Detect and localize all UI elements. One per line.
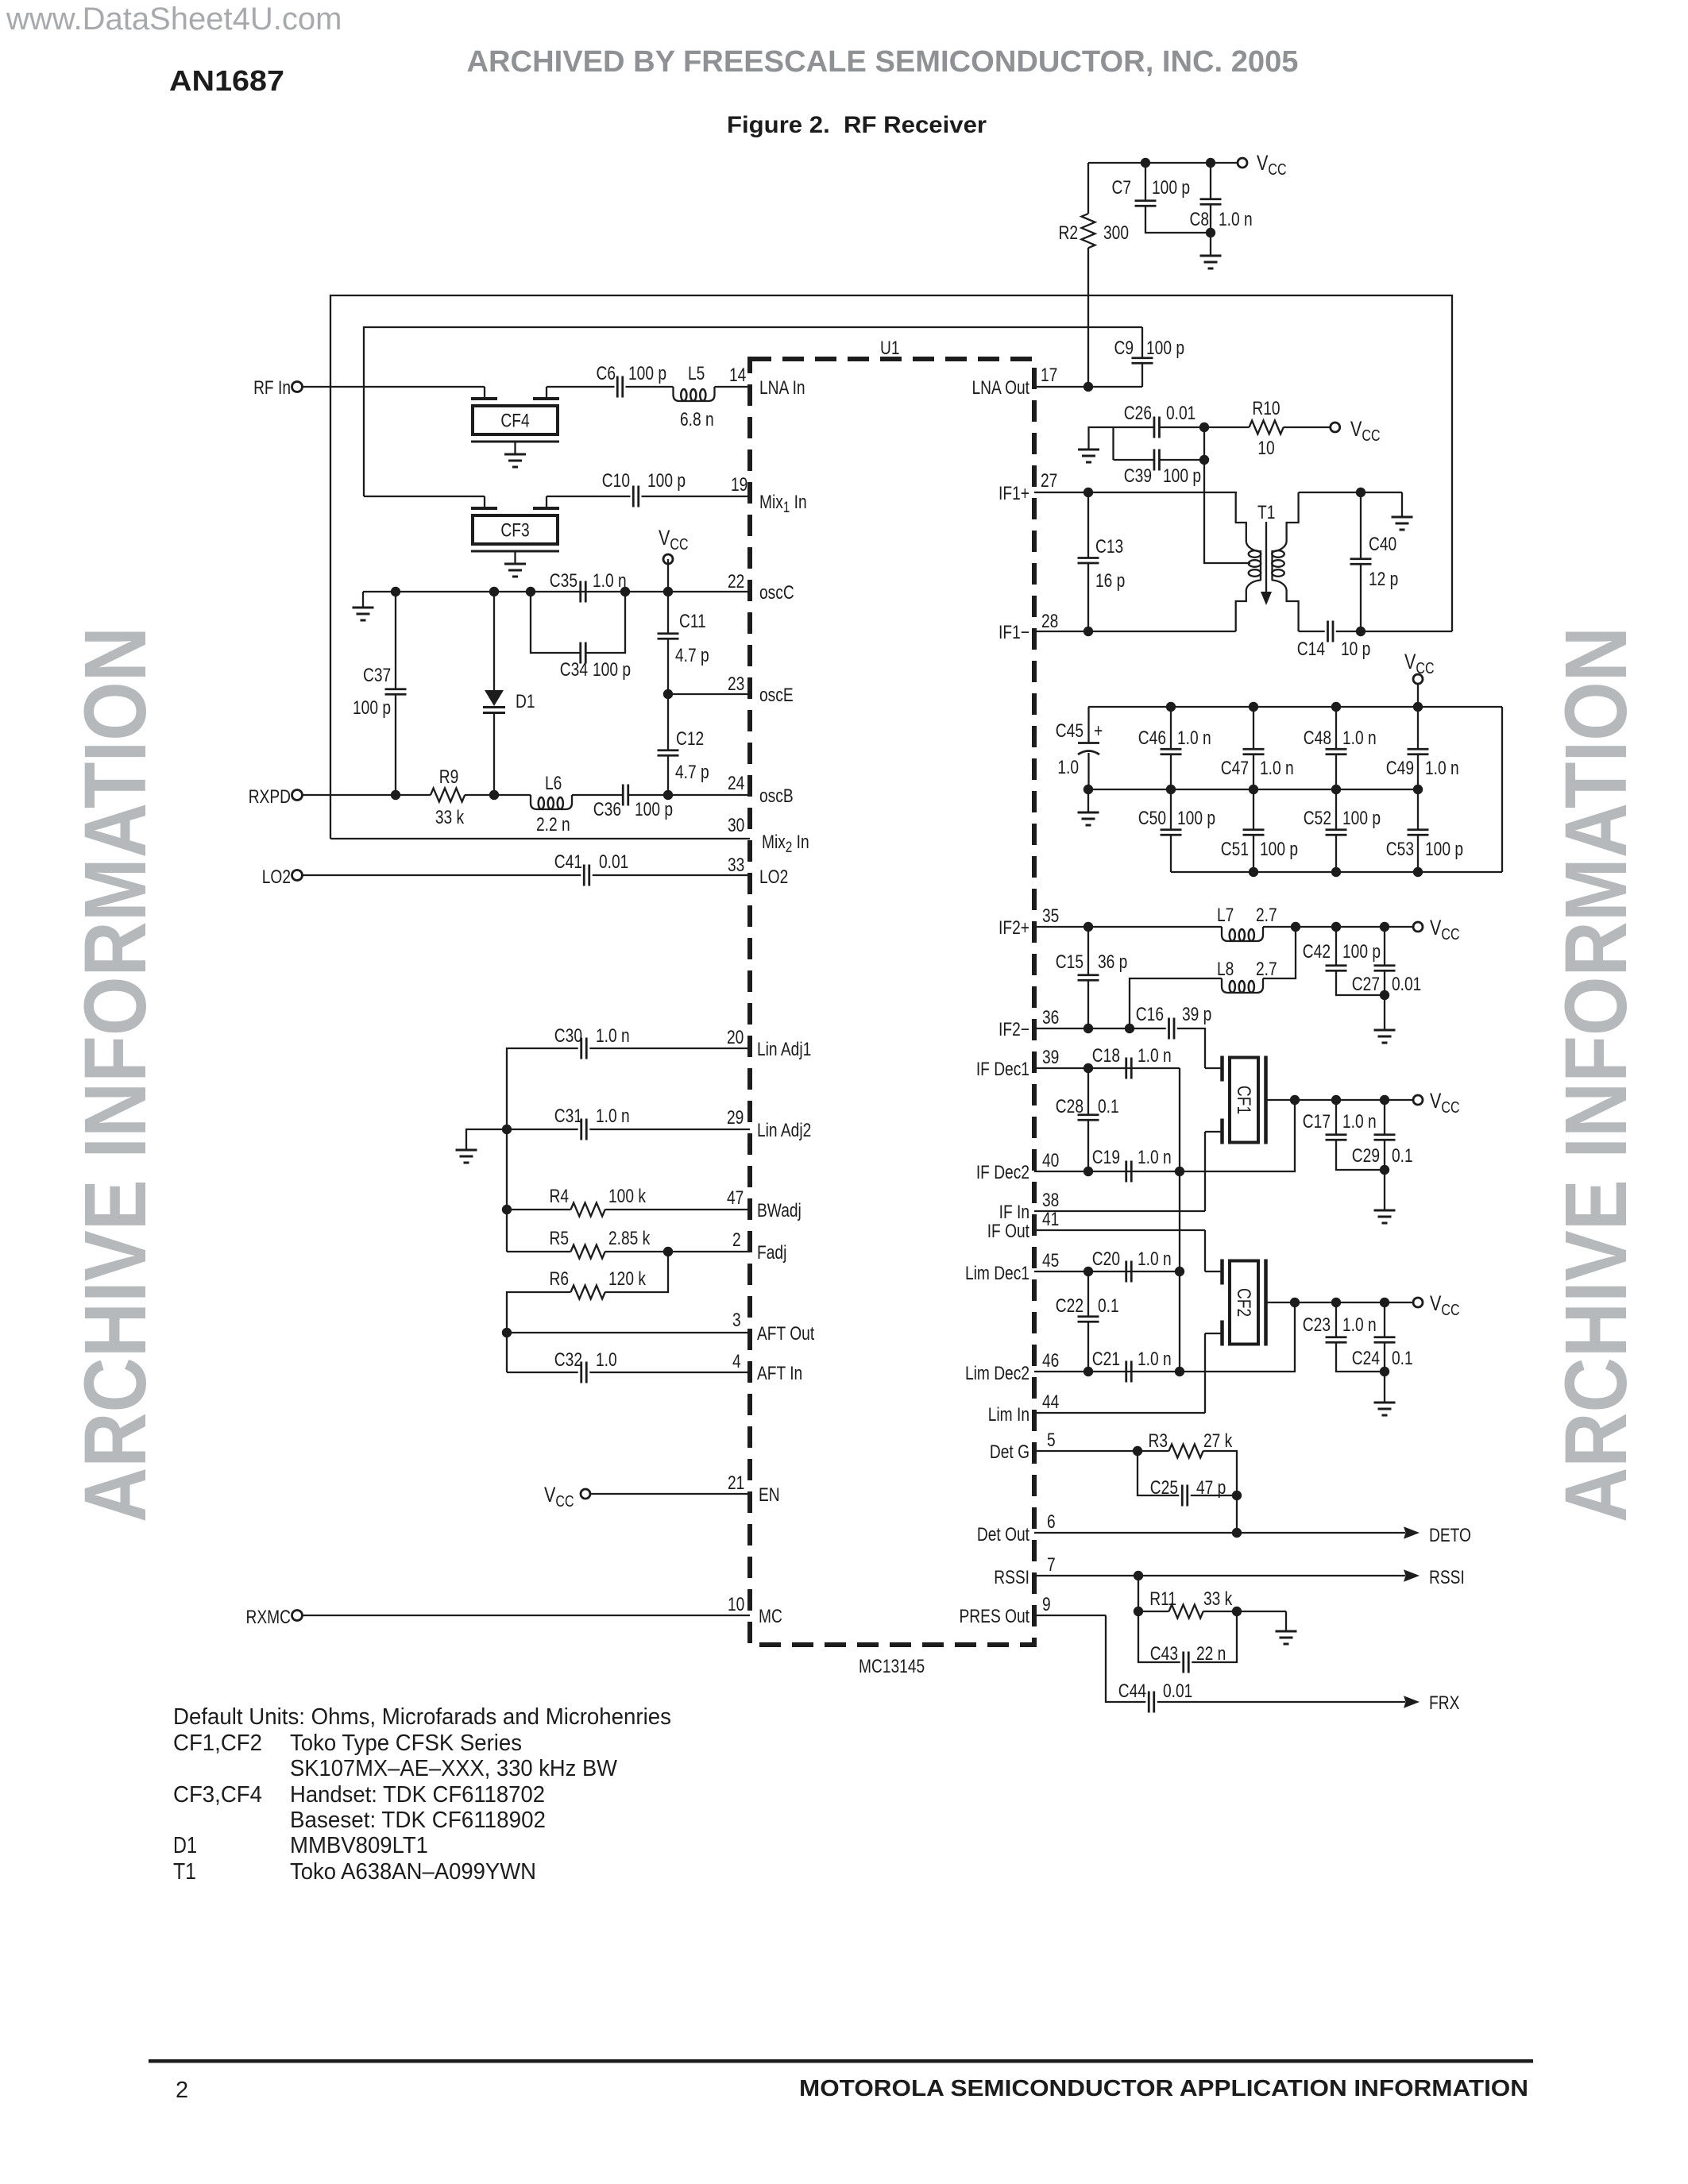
wire C34 loop right — [585, 592, 625, 653]
capacitor C18 1.0n — [1092, 1044, 1172, 1079]
svg-text:R9: R9 — [439, 766, 459, 788]
svg-text:AN1687: AN1687 — [169, 64, 284, 97]
svg-text:0.1: 0.1 — [1392, 1144, 1413, 1167]
svg-text:C11: C11 — [679, 610, 706, 632]
svg-text:C47: C47 — [1221, 757, 1249, 779]
wire bank top rail — [1088, 706, 1502, 708]
wire C39 right lead — [1159, 459, 1204, 461]
power VCC CF1 — [1413, 1090, 1460, 1117]
capacitor C22 0.1 — [1056, 1295, 1119, 1322]
svg-text:C26: C26 — [1124, 402, 1152, 424]
svg-text:1.0 n: 1.0 n — [596, 1024, 630, 1047]
capacitor C25 47p — [1150, 1476, 1226, 1507]
wire C7 bottom lead — [1145, 206, 1211, 233]
capacitor C43 22n — [1150, 1642, 1226, 1673]
resistor R6 120k — [549, 1268, 646, 1299]
wire RSSI pin7 — [1034, 1575, 1405, 1576]
capacitor C45 1.0 electrolytic — [1056, 707, 1103, 789]
wire IF1- pin28 — [1034, 631, 1236, 632]
junction R9 right — [489, 790, 499, 800]
junction C53 top — [1413, 785, 1423, 794]
capacitor C6 100p — [596, 362, 666, 398]
svg-text:9: 9 — [1042, 1593, 1051, 1615]
svg-text:100 p: 100 p — [1425, 838, 1463, 860]
svg-text:SK107MX–AE–XXX, 330 kHz BW: SK107MX–AE–XXX, 330 kHz BW — [290, 1756, 618, 1781]
svg-text:5: 5 — [1047, 1429, 1056, 1451]
pin 29 Lin Adj2 — [727, 1106, 811, 1141]
svg-text:ARCHIVED BY FREESCALE SEMICOND: ARCHIVED BY FREESCALE SEMICONDUCTOR, INC… — [467, 45, 1299, 79]
wire pin17 LNA Out — [1034, 386, 1142, 388]
svg-text:Toko Type CFSK Series: Toko Type CFSK Series — [290, 1731, 522, 1756]
svg-text:100 p: 100 p — [1260, 838, 1298, 860]
pin 46 Lim Dec2 — [965, 1349, 1059, 1384]
svg-text:Lin Adj2: Lin Adj2 — [757, 1119, 811, 1141]
svg-text:C31: C31 — [554, 1105, 582, 1127]
svg-text:0.01: 0.01 — [1163, 1680, 1192, 1702]
svg-text:IF2−: IF2− — [999, 1018, 1029, 1040]
svg-text:C36: C36 — [593, 798, 621, 820]
svg-text:10: 10 — [1257, 437, 1274, 459]
svg-text:L8: L8 — [1217, 958, 1234, 980]
svg-text:300: 300 — [1103, 222, 1129, 244]
junction Det Out — [1232, 1528, 1242, 1538]
pin 33 LO2 — [728, 854, 788, 888]
svg-text:0.1: 0.1 — [1098, 1095, 1119, 1117]
svg-text:C22: C22 — [1056, 1295, 1083, 1317]
svg-text:1.0 n: 1.0 n — [593, 569, 627, 592]
wire IF Dec2 pin40 — [1034, 1171, 1180, 1172]
wire C47 bottom lead — [1253, 754, 1254, 789]
svg-text:1.0 n: 1.0 n — [1342, 727, 1377, 749]
svg-text:www.DataSheet4U.com: www.DataSheet4U.com — [6, 2, 342, 37]
capacitor C53 100p — [1386, 830, 1463, 860]
svg-text:C6: C6 — [596, 362, 616, 384]
resistor R10 10 — [1250, 397, 1284, 459]
svg-text:C19: C19 — [1092, 1146, 1120, 1168]
svg-text:T1: T1 — [1257, 501, 1275, 523]
wire T1 secondary bottom lead — [1287, 590, 1299, 631]
svg-text:C23: C23 — [1303, 1314, 1331, 1336]
pin 35 IF2+ — [999, 905, 1059, 939]
wire IF Out pin41 — [1034, 1229, 1205, 1231]
svg-text:44: 44 — [1042, 1391, 1059, 1413]
terminal RXPD — [249, 785, 303, 808]
wire T1 primary top lead — [1236, 492, 1246, 542]
svg-text:100 p: 100 p — [628, 362, 666, 384]
junction C17 top — [1331, 1095, 1341, 1105]
capacitor C15 36p — [1056, 951, 1128, 980]
pin 39 IF Dec1 — [976, 1046, 1060, 1080]
svg-text:2.7: 2.7 — [1256, 958, 1277, 980]
wire Lim Dec2 pin46 — [1034, 1371, 1180, 1372]
wire LO2 to C41 — [303, 874, 581, 876]
capacitor C27 0.01 — [1352, 966, 1422, 995]
svg-text:DETO: DETO — [1429, 1524, 1471, 1546]
wire C37 bottom lead — [395, 694, 396, 795]
capacitor C19 1.0n — [1092, 1146, 1172, 1183]
pin 3 AFT Out — [732, 1309, 814, 1345]
wire C24 bottom lead — [1384, 1342, 1385, 1403]
side text ARCHIVE INFORMATION left — [67, 627, 164, 1522]
svg-text:1.0 n: 1.0 n — [1177, 727, 1211, 749]
wire CF2 out to VCC — [1295, 1302, 1413, 1303]
wire bank VCC lead — [1417, 684, 1419, 707]
wire R10 to VCC — [1284, 426, 1331, 428]
capacitor C44 0.01 — [1118, 1680, 1193, 1713]
svg-text:R5: R5 — [549, 1227, 569, 1249]
ground C27 — [1374, 1030, 1396, 1043]
wire C52 bottom lead — [1335, 835, 1337, 872]
svg-text:Lin Adj1: Lin Adj1 — [757, 1038, 811, 1060]
svg-text:C28: C28 — [1056, 1095, 1083, 1117]
wire C34 loop — [531, 592, 581, 653]
svg-text:IF2+: IF2+ — [999, 916, 1029, 939]
wire R4 left — [507, 1209, 571, 1210]
transformer T1 secondary top arc — [1273, 542, 1287, 552]
junction CF2 out — [1290, 1298, 1300, 1307]
svg-text:C27: C27 — [1352, 973, 1380, 995]
svg-text:33: 33 — [728, 854, 744, 876]
svg-text:C32: C32 — [554, 1349, 582, 1371]
junction C52 bottom — [1331, 867, 1341, 877]
svg-text:IF Out: IF Out — [987, 1220, 1029, 1242]
svg-text:6: 6 — [1047, 1511, 1056, 1533]
svg-text:L5: L5 — [688, 362, 705, 384]
junction C15 top — [1083, 922, 1093, 932]
junction C24 C23 — [1380, 1367, 1389, 1376]
junction L8 top — [1291, 922, 1300, 932]
wire C32 left — [507, 1372, 578, 1373]
wire oscC rail — [363, 591, 750, 592]
svg-text:1.0 n: 1.0 n — [1342, 1314, 1377, 1336]
junction L8 tee — [1125, 1024, 1134, 1033]
svg-text:47: 47 — [727, 1187, 744, 1209]
wire C26 loop left — [1112, 427, 1114, 460]
capacitor C16 39p — [1136, 1003, 1212, 1040]
junction C13 top — [1083, 488, 1093, 497]
transformer T1 primary bottom arc — [1246, 581, 1261, 591]
wire Lim Dec1 pin45 — [1034, 1271, 1180, 1272]
junction C7 top — [1141, 158, 1150, 168]
capacitor C31 1.0n — [554, 1105, 630, 1140]
svg-text:D1: D1 — [173, 1833, 197, 1858]
inductor L5 6.8n — [674, 362, 715, 430]
junction R3 left — [1133, 1446, 1142, 1456]
svg-text:oscC: oscC — [759, 581, 794, 604]
filter CF1 — [1205, 1056, 1295, 1144]
wire gnd branch — [466, 1129, 507, 1150]
junction C23 top — [1331, 1298, 1341, 1307]
svg-text:16 p: 16 p — [1095, 569, 1125, 592]
svg-text:R4: R4 — [549, 1185, 569, 1207]
svg-text:22 n: 22 n — [1196, 1642, 1226, 1665]
svg-text:C10: C10 — [602, 469, 630, 492]
svg-text:IF Dec1: IF Dec1 — [976, 1058, 1029, 1080]
svg-text:MC: MC — [759, 1605, 782, 1627]
pin 4 AFT In — [732, 1350, 802, 1384]
wire T1 primary bottom lead — [1236, 590, 1246, 631]
capacitor C29 0.1 — [1352, 1135, 1413, 1167]
wire C9 top lead — [1141, 327, 1143, 358]
svg-text:1.0 n: 1.0 n — [1219, 208, 1253, 230]
capacitor C48 1.0n — [1304, 727, 1377, 754]
filter CF2 — [1205, 1260, 1295, 1346]
capacitor C9 100p — [1114, 337, 1184, 363]
junction C53 bottom — [1413, 867, 1423, 877]
wire C42 top lead — [1335, 927, 1337, 966]
wire RSSI to R11 — [1138, 1576, 1139, 1611]
wire R11 right — [1203, 1611, 1287, 1612]
svg-text:1.0 n: 1.0 n — [1425, 757, 1459, 779]
svg-text:Det Out: Det Out — [977, 1523, 1029, 1545]
svg-text:C8: C8 — [1189, 208, 1209, 230]
svg-text:39 p: 39 p — [1182, 1003, 1211, 1025]
svg-text:R3: R3 — [1148, 1430, 1168, 1452]
wire T1 secondary top lead — [1287, 492, 1299, 542]
svg-text:24: 24 — [728, 772, 744, 794]
svg-text:C53: C53 — [1386, 838, 1414, 860]
svg-text:U1: U1 — [880, 337, 900, 359]
wire C30 to pin20 — [589, 1048, 750, 1049]
junction C26 right — [1199, 423, 1209, 432]
transformer T1 label — [1257, 501, 1275, 523]
wire Det Out pin6 — [1034, 1532, 1405, 1534]
svg-text:2.7: 2.7 — [1256, 904, 1277, 926]
filter CF3 — [471, 496, 559, 577]
svg-text:IF1+: IF1+ — [999, 482, 1029, 504]
wire C13 top lead — [1087, 492, 1089, 558]
wire C10 to pin19 — [642, 496, 751, 497]
svg-text:C12: C12 — [676, 727, 704, 750]
wire C11 top lead — [667, 592, 669, 634]
inductor L7 2.7 — [1217, 904, 1277, 941]
junction C22 top — [1083, 1267, 1093, 1276]
capacitor C14 10p — [1297, 621, 1371, 660]
svg-text:C14: C14 — [1297, 638, 1325, 660]
pin 27 IF1+ — [999, 469, 1057, 504]
svg-text:4.7 p: 4.7 p — [675, 644, 709, 666]
terminal LO2 — [262, 866, 303, 888]
svg-text:100 p: 100 p — [593, 658, 631, 681]
power VCC IF2 — [1413, 916, 1460, 943]
wire R9 to L6 — [465, 794, 531, 796]
wire IF In pin38 — [1034, 1210, 1205, 1212]
svg-text:C41: C41 — [554, 851, 582, 873]
wire C51 top lead — [1253, 789, 1254, 830]
svg-text:3: 3 — [732, 1309, 741, 1331]
svg-text:41: 41 — [1042, 1208, 1059, 1230]
capacitor C50 100p — [1138, 807, 1215, 835]
junction rail pin40 — [1175, 1167, 1184, 1176]
svg-text:C18: C18 — [1092, 1044, 1120, 1067]
wire CF1 out to VCC — [1295, 1099, 1413, 1101]
svg-text:Figure 2. RF Receiver: Figure 2. RF Receiver — [727, 112, 987, 138]
resistor R9 33k — [431, 766, 465, 828]
svg-text:23: 23 — [728, 673, 744, 695]
wire RF In to CF4 — [303, 386, 485, 388]
svg-text:C52: C52 — [1304, 807, 1331, 829]
wire C31 left — [507, 1129, 578, 1130]
svg-text:RXMC: RXMC — [246, 1606, 291, 1628]
pin 24 oscB — [728, 772, 794, 807]
junction C12 oscB — [663, 790, 673, 800]
wire IF2- pin36 — [1034, 1028, 1166, 1029]
wire C31 to pin29 — [589, 1129, 750, 1130]
wire C52 top lead — [1335, 789, 1337, 830]
junction AFT Out rail — [502, 1328, 512, 1337]
wire C43 loop right — [1192, 1611, 1237, 1662]
capacitor C42 100p — [1303, 940, 1381, 970]
terminal RF In — [253, 376, 302, 399]
svg-text:100 p: 100 p — [1163, 465, 1201, 487]
wire Det G pin5 — [1034, 1450, 1169, 1452]
svg-text:C17: C17 — [1303, 1110, 1331, 1133]
wire C29 bottom lead — [1384, 1140, 1385, 1210]
wire oscB rail left — [303, 794, 431, 796]
wire C49 bottom lead — [1417, 754, 1419, 789]
svg-text:C40: C40 — [1369, 533, 1396, 555]
junction C39 right — [1199, 455, 1209, 465]
svg-text:CF1: CF1 — [1233, 1086, 1255, 1114]
svg-text:C51: C51 — [1221, 838, 1249, 860]
capacitor C51 100p — [1221, 830, 1298, 860]
wire C17 top lead — [1335, 1100, 1337, 1135]
wire C44 to FRX — [1157, 1701, 1405, 1703]
junction C40 bottom — [1356, 627, 1365, 636]
svg-text:T1: T1 — [173, 1859, 196, 1885]
pin 36 IF2&#8722; — [999, 1006, 1059, 1040]
wire R5 to pin2 — [605, 1251, 751, 1252]
wire bank right edge — [1501, 707, 1503, 872]
svg-text:PRES Out: PRES Out — [959, 1605, 1029, 1627]
wire R2 bottom — [1087, 248, 1089, 387]
junction C28 top — [1083, 1063, 1093, 1073]
svg-text:C43: C43 — [1150, 1642, 1178, 1665]
svg-text:Default Units: Ohms, Microfara: Default Units: Ohms, Microfarads and Mic… — [173, 1704, 671, 1730]
ground C8 — [1200, 256, 1222, 268]
wire C40 top lead — [1360, 492, 1362, 559]
wire IF2+ pin35 — [1034, 926, 1222, 928]
svg-text:ARCHIVE INFORMATION: ARCHIVE INFORMATION — [1547, 627, 1645, 1522]
junction CF1 out — [1290, 1095, 1300, 1105]
svg-text:C15: C15 — [1056, 951, 1083, 973]
svg-text:IF1−: IF1− — [999, 621, 1029, 643]
pin 2 Fadj — [732, 1229, 786, 1264]
capacitor C24 0.1 — [1352, 1337, 1413, 1369]
svg-text:C21: C21 — [1092, 1348, 1120, 1370]
svg-text:RSSI: RSSI — [1429, 1566, 1465, 1588]
junction C19 left — [1083, 1167, 1093, 1176]
svg-text:28: 28 — [1041, 610, 1058, 632]
capacitor C20 1.0n — [1092, 1248, 1172, 1283]
junction C15 bottom — [1083, 1024, 1093, 1033]
svg-text:MOTOROLA SEMICONDUCTOR APPLICA: MOTOROLA SEMICONDUCTOR APPLICATION INFOR… — [799, 2076, 1528, 2101]
wire R11 left lead — [1138, 1611, 1169, 1612]
capacitor C21 1.0n — [1092, 1348, 1172, 1383]
doc number AN1687 — [169, 64, 284, 97]
wire PRES Out down — [1106, 1615, 1145, 1702]
wire D1 top lead — [493, 592, 495, 690]
varactor diode D1 MMBV809LT1 — [483, 690, 535, 713]
svg-text:100 k: 100 k — [608, 1185, 646, 1207]
wire C37 top lead — [395, 592, 396, 689]
pin 20 Lin Adj1 — [727, 1026, 811, 1060]
wire Lim In pin44 — [1034, 1412, 1205, 1414]
svg-text:C35: C35 — [550, 569, 577, 592]
svg-text:FRX: FRX — [1429, 1692, 1460, 1714]
svg-text:R6: R6 — [549, 1268, 569, 1290]
junction R9 left — [391, 790, 400, 800]
svg-text:100 p: 100 p — [1152, 176, 1190, 199]
wire C42 bottom lead — [1336, 970, 1385, 995]
wire dec rail — [1179, 1068, 1180, 1271]
junction R11 right — [1232, 1607, 1242, 1616]
resistor R11 33k — [1149, 1588, 1232, 1619]
junction C8 top — [1206, 158, 1215, 168]
svg-text:C49: C49 — [1386, 757, 1414, 779]
svg-text:AFT In: AFT In — [757, 1362, 802, 1384]
svg-text:12 p: 12 p — [1369, 568, 1398, 590]
junction rail pin46 — [1175, 1367, 1184, 1376]
svg-text:C48: C48 — [1304, 727, 1331, 749]
svg-text:1.0 n: 1.0 n — [1138, 1348, 1172, 1370]
pin 6 Det Out — [977, 1511, 1056, 1545]
svg-text:Toko A638AN–A099YWN: Toko A638AN–A099YWN — [290, 1859, 536, 1885]
wire C12 top lead — [667, 694, 669, 751]
wire C50 top lead — [1170, 789, 1172, 830]
svg-text:C42: C42 — [1303, 940, 1331, 963]
power VCC cap bank — [1404, 650, 1435, 684]
junction C34 right — [620, 587, 630, 596]
wire C30 net — [507, 1048, 578, 1252]
svg-text:C37: C37 — [363, 664, 391, 686]
svg-text:100 p: 100 p — [1342, 940, 1381, 963]
svg-text:C30: C30 — [554, 1024, 582, 1047]
power VCC top — [1238, 152, 1287, 179]
svg-text:2: 2 — [732, 1229, 741, 1251]
wire L7 to VCC — [1263, 926, 1413, 928]
capacitor C36 100p — [593, 785, 673, 820]
svg-text:Handset: TDK CF6118702: Handset: TDK CF6118702 — [290, 1782, 545, 1808]
wire LNA feed horizontal — [364, 327, 1142, 496]
svg-text:+: + — [1094, 720, 1103, 742]
ground C45 — [1078, 789, 1099, 825]
junction C13 bottom — [1083, 627, 1093, 636]
junction R11 left — [1134, 1607, 1143, 1616]
junction C27 top — [1380, 922, 1389, 932]
svg-text:AFT Out: AFT Out — [757, 1322, 814, 1345]
svg-text:C34: C34 — [560, 658, 588, 681]
svg-text:35: 35 — [1042, 905, 1059, 927]
svg-text:33 k: 33 k — [1203, 1588, 1232, 1610]
svg-text:C9: C9 — [1114, 337, 1134, 359]
wire C11 bottom lead — [667, 639, 669, 694]
ground T1 secondary — [1392, 492, 1413, 530]
svg-text:R10: R10 — [1252, 397, 1280, 419]
svg-text:20: 20 — [727, 1026, 744, 1048]
junction C49 top — [1413, 702, 1423, 712]
pin 10 MC — [728, 1593, 782, 1627]
capacitor C37 100p — [353, 664, 407, 719]
wire C27 bottom lead — [1384, 970, 1385, 1030]
wire C17 bottom lead — [1336, 1140, 1385, 1170]
svg-text:oscE: oscE — [759, 684, 794, 706]
wire C51 bottom lead — [1253, 835, 1254, 872]
capacitor C30 1.0n — [554, 1024, 630, 1059]
wire C39 left lead — [1114, 459, 1154, 461]
wire C15 bottom lead — [1087, 980, 1089, 1028]
ground C26 — [1078, 450, 1099, 462]
